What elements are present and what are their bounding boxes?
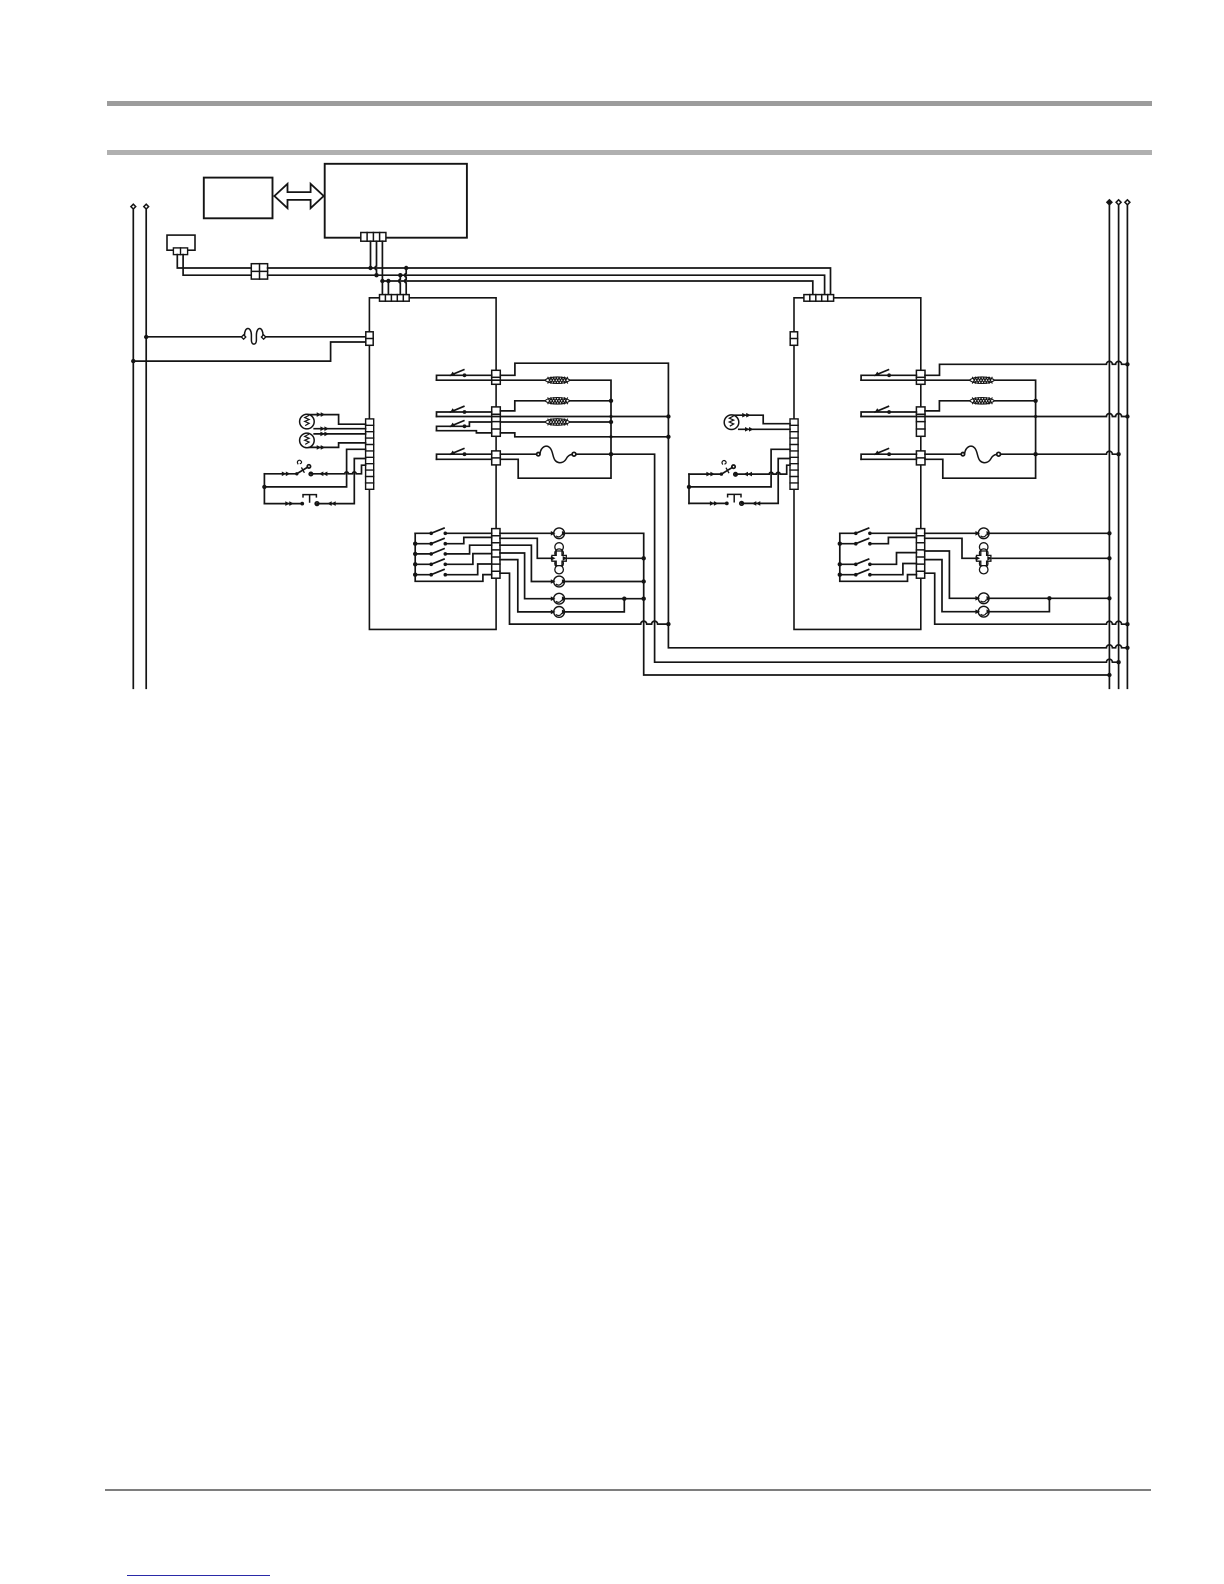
- wire strip bottom to collector (hops): [500, 573, 668, 624]
- selector switch contact 3: [415, 545, 492, 554]
- wire P2.1 to heater R2: [500, 401, 544, 411]
- wire strip to cluster R: [925, 538, 1110, 558]
- left heater switch unit box: [369, 298, 496, 630]
- selector switch contact 4: [415, 554, 492, 565]
- selector switch contact 1R: [840, 532, 917, 534]
- wire L1 low to strip: [314, 428, 365, 430]
- switch SW4R (thermostat circuit): [861, 454, 916, 459]
- wire strip pin5R branch: [689, 449, 790, 487]
- wire switch connector pin5 to bus1 (hops over bus2, bus3): [405, 268, 406, 295]
- pin connector P3 on right edge: [492, 451, 501, 465]
- wire strip to cluster: [500, 538, 644, 558]
- switch SW4 (thermostat circuit): [437, 454, 492, 459]
- wire strip to lamp LAR and rail1: [925, 532, 1110, 534]
- connector (2 pin) on left unit left edge: [366, 332, 373, 346]
- wire P1R.A to rail3 (hops rails 1,2): [925, 361, 1127, 375]
- heater element R1: [545, 377, 570, 384]
- wire switch connector pin2 to bus3: [387, 281, 389, 295]
- wire L1R low to strip: [739, 428, 790, 430]
- pin connector P2R (4 cells) on right edge: [916, 407, 925, 436]
- wire strip to lamp LA: [500, 533, 1109, 675]
- lamp LD: [554, 607, 565, 618]
- wire strip pin5 branch: [264, 449, 365, 487]
- wire strip to lamp LCR: [925, 560, 1050, 612]
- wire switch connector pin4 to bus2 (hop over bus3): [399, 275, 400, 294]
- wire bus2: [268, 275, 825, 294]
- manual switch S1R: [689, 465, 790, 474]
- ground rail 2: [1118, 205, 1120, 689]
- pin strip P4 (7 cells) on right edge: [492, 529, 500, 579]
- selector switch contact 4R: [840, 564, 917, 575]
- wire SW2 feed line to collector: [437, 416, 669, 418]
- switch SW1 (heater hi): [437, 375, 492, 380]
- lamp LCR: [978, 606, 989, 617]
- ground rail 1: [1108, 205, 1110, 689]
- lamp LA: [554, 528, 565, 539]
- connector (5 pin) on right unit top: [804, 295, 834, 302]
- push switch S2: [264, 459, 365, 504]
- switch SW2R: [861, 412, 916, 417]
- relay K1: [167, 235, 195, 250]
- connector strip (11 pin) on right unit left edge: [790, 419, 798, 489]
- ground rail 3: [1126, 205, 1128, 689]
- bidirectional data arrow: [274, 184, 323, 208]
- wire R2 to node column: [570, 400, 611, 402]
- wire strip to lamp LB: [500, 545, 644, 581]
- push switch S2R: [689, 459, 790, 504]
- control module U2: [325, 164, 467, 238]
- pin connector P1R on right edge: [916, 370, 925, 384]
- thermostat TH1: [500, 453, 536, 455]
- wire S1 to S2 left leg: [263, 474, 265, 504]
- wire U2 pin3 to bus2 (hop over bus1): [375, 241, 376, 275]
- connector on K1 (2 pins): [173, 248, 187, 255]
- selector switch contact 3R: [840, 553, 917, 565]
- wire rail A to connector: [133, 342, 365, 361]
- wire R1R to node column: [925, 380, 1036, 478]
- connector on U2 (4 pins): [361, 233, 386, 242]
- wire P2.3 to heater R3: [500, 421, 544, 423]
- wire U2 pin4 down to switch connector pin1, node on bus3: [381, 241, 383, 294]
- selector switch contact 2: [415, 537, 492, 543]
- wire TH1 to rail (via node column): [576, 454, 1119, 662]
- illumination cluster: [552, 543, 566, 574]
- wire strip to lamp LC: [500, 553, 644, 599]
- lamp LAR: [978, 528, 989, 539]
- wire TH1R to rail2 (hop rail1): [1001, 451, 1119, 454]
- pin connector P1 on right edge: [492, 370, 501, 384]
- wire P1.A to collector line: [500, 363, 1127, 648]
- heater element R2R: [969, 398, 994, 405]
- indicator lamp L1R: [724, 415, 739, 430]
- lamp LC: [554, 593, 565, 604]
- wire SW4 feed through pin: [437, 458, 492, 460]
- indicator lamp L1: [300, 414, 315, 429]
- selector switch contact 2R: [840, 537, 917, 543]
- wire L1 to strip: [310, 415, 366, 425]
- battery rail B: [145, 209, 147, 689]
- wire strip to lamp LBR and rail1: [925, 551, 1110, 598]
- illumination cluster R: [977, 543, 991, 574]
- lamp LB: [554, 576, 565, 587]
- wire K1 pin2 to junction J1: [183, 255, 251, 276]
- wire K1 pin1 to junction J1: [177, 255, 251, 268]
- lamp LBR: [978, 593, 989, 604]
- connector (2 pin) on right unit left edge: [790, 332, 797, 346]
- wire SW4R feed through pin: [861, 458, 916, 460]
- wire U2 pin2 to bus1: [370, 241, 372, 268]
- wire SW3 feed: [437, 431, 492, 433]
- wire R3 to node column: [570, 421, 611, 423]
- wire P2R.1 to heater R2R: [925, 401, 969, 411]
- wire L2 to strip: [314, 433, 365, 435]
- thermostat TH1R: [925, 453, 961, 455]
- wire SW2R feed to rail3 (hops rails 1,2): [861, 414, 1127, 417]
- wire L1R to strip: [734, 415, 790, 424]
- wire bus1: [268, 268, 831, 295]
- wire R2R to node column: [995, 400, 1036, 402]
- heater element R1R: [969, 377, 994, 384]
- switch SW3: [437, 426, 465, 430]
- wire strip bottom R to rail3 (hops rails1,2): [925, 573, 1128, 624]
- heater element R3: [545, 419, 570, 426]
- right heater switch unit box: [794, 298, 921, 630]
- heater element R2: [545, 398, 570, 405]
- switch SW1R: [861, 375, 916, 380]
- selector common bus: [415, 533, 492, 581]
- control unit U1: [204, 178, 273, 219]
- selector switch contact 1: [415, 532, 492, 534]
- selector switch contact 5: [415, 564, 492, 575]
- manual switch S1: [264, 465, 365, 474]
- selector common bus R: [840, 533, 917, 581]
- wire L2 low to strip: [310, 443, 366, 448]
- switch SW2: [437, 412, 492, 417]
- wire bus3: [382, 281, 812, 295]
- wire SW1 feed through pin to heater R1: [437, 379, 545, 381]
- wire strip to lamp LD: [500, 560, 624, 612]
- pin connector P2 (4 cells) on right edge: [492, 407, 501, 436]
- indicator lamp L2: [300, 433, 315, 448]
- wire R1 to node column: [500, 380, 611, 478]
- junction connector J1 (2x2): [251, 264, 267, 279]
- pin connector P3R on right edge: [916, 451, 925, 465]
- wire P2.4 to collector: [500, 433, 668, 437]
- connector strip (11 pin) on left unit left edge: [366, 419, 374, 489]
- battery rail A: [132, 209, 134, 689]
- pin strip P4R (7 cells) on right edge: [916, 529, 924, 579]
- connector (5 pin) on left unit top: [380, 295, 410, 302]
- fuse F1: [146, 336, 242, 338]
- wire SW1R feed to heater R1R: [861, 379, 969, 381]
- wire S1R to S2R left leg: [688, 474, 690, 503]
